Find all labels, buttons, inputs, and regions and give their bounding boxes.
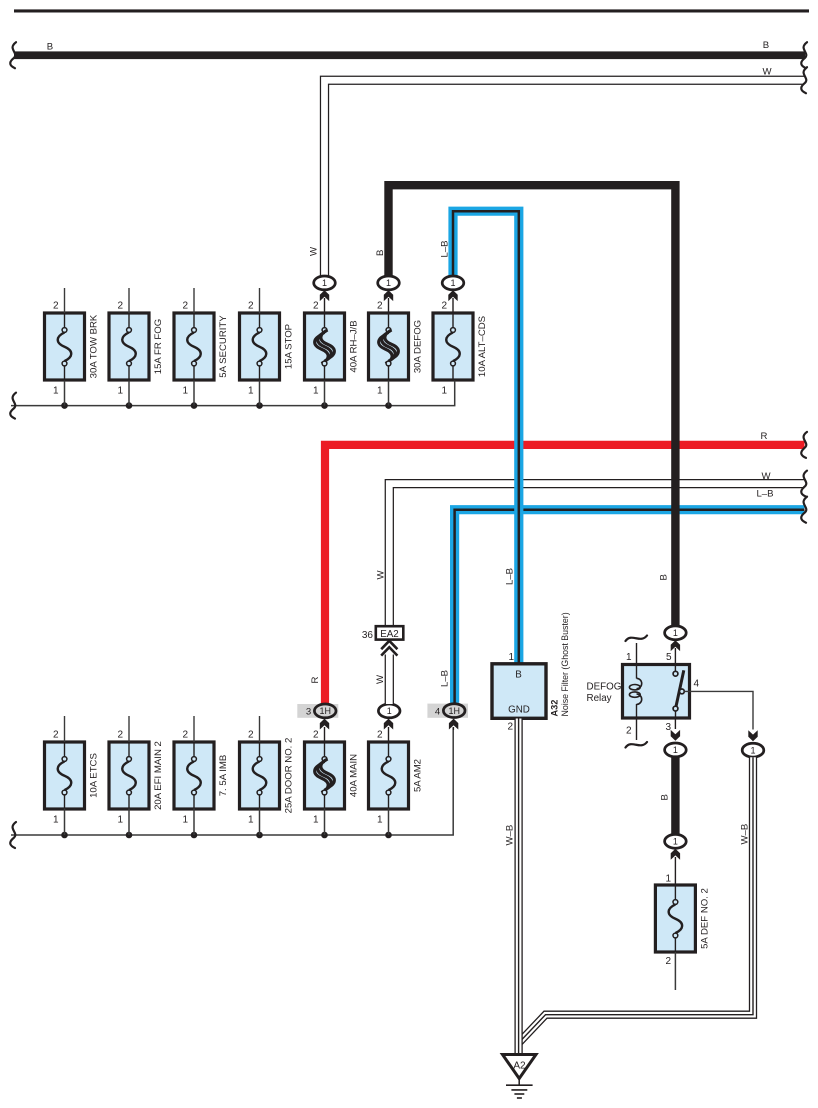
- pin 3 wire: [674, 718, 676, 729]
- svg-text:2: 2: [182, 301, 188, 312]
- label DEFOG Relay: [587, 682, 622, 705]
- wire W from EA2 chevron to connector oval: [385, 654, 394, 705]
- svg-text:1: 1: [387, 706, 392, 716]
- pin 1 wire bottom fuse col3: [193, 809, 195, 836]
- terminal arrow above fuse 30A DEFOG: [384, 290, 393, 313]
- svg-text:1: 1: [322, 278, 327, 288]
- svg-text:20A EFI MAIN 2: 20A EFI MAIN 2: [153, 741, 164, 810]
- terminal arrow above fuse 40A RH–J/B: [320, 290, 329, 313]
- svg-text:1: 1: [53, 386, 59, 397]
- connector oval 1 above fuse 30A DEFOG: [378, 276, 400, 290]
- svg-text:A2: A2: [513, 1061, 526, 1072]
- junction dot top bus col5: [321, 402, 328, 409]
- wire W (white) from right edge to EA2 connector: [389, 484, 804, 626]
- pin 2 label fuse 40A MAIN: [313, 730, 319, 741]
- connector oval 1 above fuse 10A ALT–CDS: [442, 276, 464, 290]
- svg-text:1: 1: [313, 815, 319, 826]
- pin 1 label fuse 30A DEFOG: [377, 386, 383, 397]
- pin 2 stub wire fuse 15A FR FOG: [128, 288, 130, 313]
- svg-text:W: W: [309, 246, 320, 256]
- svg-text:B: B: [660, 794, 671, 800]
- break symbol right of L-B wire: [801, 497, 807, 523]
- pin 1 label fuse 5A SECURITY: [182, 386, 188, 397]
- label W vertical col5: [309, 246, 320, 256]
- svg-text:40A RH–J/B: 40A RH–J/B: [349, 320, 360, 372]
- svg-text:Noise Filter (Ghost Buster): Noise Filter (Ghost Buster): [560, 612, 570, 716]
- label W vertical above EA2: [376, 570, 387, 580]
- pin 2 stub wire fuse 20A EFI MAIN 2: [128, 716, 130, 742]
- svg-text:1: 1: [313, 386, 319, 397]
- svg-text:1: 1: [53, 815, 59, 826]
- label L-B vertical col7: [440, 240, 451, 257]
- label B vertical below relay: [660, 794, 671, 800]
- svg-text:B: B: [375, 250, 386, 256]
- svg-text:B: B: [659, 574, 670, 580]
- svg-text:30A TOW BRK: 30A TOW BRK: [89, 314, 100, 378]
- wire W (white) from right edge down to fuse col5: [325, 80, 805, 277]
- svg-text:2: 2: [117, 730, 123, 741]
- pin 1 label: [626, 652, 632, 663]
- pin 5 wire: [674, 648, 676, 665]
- connector oval 1 above relay pin 5: [665, 626, 687, 640]
- pin 1 label fuse 7. 5A IMB: [182, 815, 188, 826]
- pin 1 wire bottom fuse col4: [259, 809, 261, 836]
- label R right: [761, 431, 768, 442]
- pin 2 label fuse 10A ETCS: [53, 730, 59, 741]
- pin 2 label noise filter: [507, 722, 513, 733]
- svg-text:7. 5A IMB: 7. 5A IMB: [218, 755, 229, 797]
- svg-text:1: 1: [182, 815, 188, 826]
- label W right top: [762, 67, 772, 78]
- pin 1 label fuse 5A AM2: [377, 815, 383, 826]
- wire W-B from relay pin4 oval to ground run: [519, 757, 753, 1043]
- svg-text:1: 1: [673, 837, 678, 847]
- svg-text:1: 1: [626, 652, 632, 663]
- fuse 30A DEFOG: [369, 313, 424, 380]
- connector oval 1 above 5A AM2: [378, 704, 400, 718]
- noise filter A32 box: [492, 664, 546, 719]
- terminal arrow below 1H pin3: [320, 719, 329, 742]
- label L-B right: [756, 489, 773, 500]
- connector oval 1 below relay pin 3: [665, 743, 687, 757]
- wire R (red) from right edge to 1H pin 3: [325, 445, 805, 704]
- pin 4 label: [694, 679, 700, 690]
- fuse 10A ETCS: [45, 742, 100, 809]
- fuse 20A EFI MAIN 2: [109, 741, 164, 810]
- svg-text:B: B: [47, 42, 53, 53]
- svg-text:A32: A32: [550, 700, 560, 717]
- svg-text:L–B: L–B: [756, 489, 773, 500]
- svg-text:3: 3: [665, 722, 671, 733]
- svg-text:EA2: EA2: [380, 629, 399, 640]
- svg-text:W: W: [762, 67, 772, 78]
- junction dot bottom bus col1: [61, 832, 68, 839]
- pin 2 label fuse 30A DEFOG: [377, 301, 383, 312]
- label L-B vertical near 1H pin4: [440, 670, 451, 687]
- svg-text:15A FR FOG: 15A FR FOG: [153, 319, 164, 374]
- pin 2 label fuse 40A RH–J/B: [313, 301, 319, 312]
- svg-text:5A AM2: 5A AM2: [413, 759, 424, 792]
- pin 1 label fuse 40A MAIN: [313, 815, 319, 826]
- svg-text:1: 1: [248, 815, 254, 826]
- junction dot top bus col3: [191, 402, 198, 409]
- svg-text:1: 1: [673, 745, 678, 755]
- svg-text:1: 1: [377, 386, 383, 397]
- svg-text:1: 1: [450, 278, 455, 288]
- terminal arrow below 1H pin4: [449, 719, 458, 730]
- svg-text:1: 1: [673, 628, 678, 638]
- svg-text:W: W: [376, 570, 387, 580]
- pin 1 wire bottom fuse col2: [128, 809, 130, 836]
- wire L-B from 10A ALT-CDS up over to Noise Filter pin 1: [453, 211, 519, 664]
- svg-text:2: 2: [441, 301, 447, 312]
- wire bus under bottom fuse row: [11, 728, 453, 836]
- svg-text:Relay: Relay: [587, 693, 612, 704]
- svg-text:GND: GND: [508, 705, 530, 716]
- junction dot bottom bus col6: [385, 832, 392, 839]
- wire W-B from noise filter GND to ground A2: [514, 719, 522, 1055]
- svg-text:10A ETCS: 10A ETCS: [89, 753, 100, 798]
- label W vertical EA2: [375, 674, 386, 684]
- break symbol right of W mid wire: [801, 471, 807, 497]
- junction dot bottom bus col3: [191, 832, 198, 839]
- label B vertical col6: [375, 250, 386, 256]
- pin 1 wire fuse col4: [259, 381, 261, 406]
- pin 2 wire DEF fuse: [674, 952, 676, 990]
- svg-text:2: 2: [626, 726, 632, 737]
- label Noise Filter (Ghost Buster): [560, 612, 570, 716]
- fuse 40A MAIN: [305, 742, 360, 809]
- svg-text:36: 36: [362, 630, 374, 641]
- svg-text:1: 1: [441, 386, 447, 397]
- pin 2 label fuse 10A ALT–CDS: [441, 301, 447, 312]
- junction dot bottom bus col2: [126, 832, 133, 839]
- svg-text:25A DOOR NO. 2: 25A DOOR NO. 2: [284, 738, 295, 814]
- pin 2 label DEF fuse: [665, 956, 671, 967]
- break symbol right of R wire: [801, 432, 807, 458]
- wire bus under top fuse row: [11, 381, 455, 406]
- pin 1 wire bottom fuse col1: [64, 809, 66, 836]
- pin 1 label DEF fuse: [665, 874, 671, 885]
- fuse 5A AM2: [369, 742, 424, 809]
- pin 1 label fuse 30A TOW BRK: [53, 386, 59, 397]
- pin 2 stub wire fuse 5A SECURITY: [193, 288, 195, 313]
- svg-text:40A MAIN: 40A MAIN: [349, 754, 360, 797]
- terminal arrow relay pin 3: [671, 730, 680, 741]
- pin 2 stub wire fuse 7. 5A IMB: [193, 716, 195, 742]
- break symbol left of bottom row bus: [10, 822, 16, 848]
- break symbol left of B bus: [10, 42, 16, 68]
- pin 1 label fuse 20A EFI MAIN 2: [117, 815, 123, 826]
- junction dot bottom bus col4: [256, 832, 263, 839]
- svg-text:1: 1: [665, 874, 671, 885]
- svg-text:5A DEF NO. 2: 5A DEF NO. 2: [699, 888, 710, 949]
- svg-text:1: 1: [750, 745, 755, 755]
- svg-text:1H: 1H: [448, 706, 460, 716]
- svg-text:L–B: L–B: [440, 670, 451, 687]
- svg-text:1: 1: [248, 386, 254, 397]
- terminal arrow below oval above 5A AM2: [384, 719, 393, 742]
- label W-B right: [740, 824, 751, 845]
- svg-text:W: W: [375, 674, 386, 684]
- label A32: [550, 700, 560, 717]
- junction dot top bus col2: [126, 402, 133, 409]
- pin 2 wire with break: [626, 704, 648, 748]
- fuse 5A DEF NO. 2: [655, 885, 710, 952]
- svg-text:2: 2: [377, 730, 383, 741]
- pin 2 label fuse 15A FR FOG: [117, 301, 123, 312]
- fuse 15A FR FOG: [109, 313, 164, 380]
- pin 1 wire fuse col1: [64, 381, 66, 406]
- svg-text:B: B: [515, 670, 522, 681]
- pin 1 label fuse 10A ETCS: [53, 815, 59, 826]
- wire B bus (battery feed) top: [14, 51, 805, 59]
- wire B (black) from 30A DEFOG over to DEFOG relay pin 5: [389, 185, 676, 628]
- svg-text:1H: 1H: [319, 706, 331, 716]
- svg-text:W: W: [761, 471, 771, 482]
- terminal arrow relay pin 5: [671, 640, 680, 651]
- svg-text:1: 1: [377, 815, 383, 826]
- pin 1 label fuse 40A RH–J/B: [313, 386, 319, 397]
- svg-text:2: 2: [182, 730, 188, 741]
- pin 1 wire fuse col3: [193, 381, 195, 406]
- pin 2 stub wire fuse 25A DOOR NO. 2: [259, 716, 261, 742]
- pin 2 stub wire fuse 15A STOP: [259, 288, 261, 313]
- top border line: [14, 9, 809, 12]
- connector oval 1 above fuse 40A RH–J/B: [314, 276, 336, 290]
- break symbol right of B bus: [801, 42, 807, 68]
- pin 1 wire fuse col6: [388, 381, 390, 406]
- label B right: [763, 40, 769, 51]
- pin 2 label fuse 20A EFI MAIN 2: [117, 730, 123, 741]
- pin 2 label fuse 15A STOP: [248, 301, 254, 312]
- pin 2 label fuse 30A TOW BRK: [53, 301, 59, 312]
- fuse 40A RH–J/B: [305, 313, 360, 380]
- svg-text:4: 4: [435, 707, 441, 718]
- svg-text:W–B: W–B: [740, 824, 751, 845]
- svg-text:1: 1: [508, 652, 514, 663]
- connector 1H pin 4 (from L-B wire): [427, 704, 468, 718]
- label B left: [47, 42, 53, 53]
- wire L-B (blue-black) from right edge to 1H pin 4: [455, 510, 805, 703]
- fuse 25A DOOR NO. 2: [240, 738, 295, 814]
- pin 1 wire fuse col5: [324, 381, 326, 406]
- label L-B vertical above noise filter: [505, 568, 516, 585]
- svg-text:4: 4: [694, 679, 700, 690]
- ground symbol: [506, 1079, 533, 1099]
- svg-text:2: 2: [53, 730, 59, 741]
- svg-text:30A DEFOG: 30A DEFOG: [413, 320, 424, 373]
- pin 1 label fuse 15A FR FOG: [117, 386, 123, 397]
- label W-B left: [505, 825, 516, 846]
- terminal arrow below oval: [671, 849, 680, 885]
- svg-text:1: 1: [182, 386, 188, 397]
- svg-text:W–B: W–B: [505, 825, 516, 846]
- svg-text:5A SECURITY: 5A SECURITY: [218, 315, 229, 378]
- pin 1 label fuse 15A STOP: [248, 386, 254, 397]
- label W right mid: [761, 471, 771, 482]
- break symbol right of W wire: [801, 67, 807, 93]
- junction dot bottom bus col5: [321, 832, 328, 839]
- svg-text:1: 1: [386, 278, 391, 288]
- svg-text:R: R: [761, 431, 768, 442]
- pin 2 stub wire fuse 10A ETCS: [64, 716, 66, 742]
- pin 1 label fuse 10A ALT–CDS: [441, 386, 447, 397]
- connector oval 1 above 5A DEF NO.2: [665, 834, 687, 848]
- connector EA2 pin 36: [362, 626, 403, 641]
- svg-text:1: 1: [117, 386, 123, 397]
- svg-text:DEFOG: DEFOG: [587, 682, 622, 693]
- pin 2 stub wire fuse 30A TOW BRK: [64, 288, 66, 313]
- svg-text:L–B: L–B: [440, 240, 451, 257]
- svg-text:2: 2: [53, 301, 59, 312]
- pin 2 label: [626, 726, 632, 737]
- relay box U1: [623, 665, 690, 719]
- pin 5 label: [666, 652, 672, 663]
- svg-text:5: 5: [666, 652, 672, 663]
- connector oval 1 below pin 4 drop: [742, 743, 764, 757]
- pin 1 wire bottom fuse col5: [324, 809, 326, 836]
- svg-text:3: 3: [306, 707, 311, 718]
- svg-text:1: 1: [117, 815, 123, 826]
- fuse 30A TOW BRK: [45, 313, 100, 380]
- junction dot top bus col1: [61, 402, 68, 409]
- label R vertical: [310, 677, 321, 684]
- label B vertical above relay: [659, 574, 670, 580]
- svg-text:2: 2: [117, 301, 123, 312]
- pin 1 wire fuse col2: [128, 381, 130, 406]
- fuse 5A SECURITY: [174, 313, 229, 380]
- break symbol left of top row bus: [10, 393, 16, 419]
- svg-text:2: 2: [248, 730, 254, 741]
- svg-text:L–B: L–B: [505, 568, 516, 585]
- connector 1H pin 3 (from R wire): [297, 704, 338, 718]
- wire B from relay pin 3 to 5A DEF NO.2: [671, 757, 679, 835]
- pin 4 wire to W-B drop: [684, 691, 753, 729]
- ground A2 triangle: [503, 1055, 537, 1079]
- svg-text:15A STOP: 15A STOP: [284, 324, 295, 369]
- pin 1 label noise filter: [508, 652, 514, 663]
- terminal arrow pin 4 drop: [748, 730, 757, 741]
- pin 3 label: [665, 722, 671, 733]
- svg-text:2: 2: [665, 956, 671, 967]
- relay coil: [629, 678, 641, 704]
- fuse 15A STOP: [240, 313, 295, 380]
- relay switch contact: [673, 665, 684, 719]
- svg-text:2: 2: [248, 301, 254, 312]
- shield chevron below EA2: [381, 641, 397, 656]
- svg-text:R: R: [310, 677, 321, 684]
- junction dot top bus col4: [256, 402, 263, 409]
- pin 2 label fuse 7. 5A IMB: [182, 730, 188, 741]
- fuse 10A ALT–CDS: [433, 313, 488, 380]
- svg-text:2: 2: [507, 722, 513, 733]
- fuse 7. 5A IMB: [174, 742, 229, 809]
- pin 1 wire bottom fuse col6: [388, 809, 390, 836]
- svg-text:10A ALT–CDS: 10A ALT–CDS: [477, 316, 488, 377]
- pin 1 label fuse 25A DOOR NO. 2: [248, 815, 254, 826]
- pin 1 wire with break: [626, 636, 648, 679]
- svg-text:2: 2: [377, 301, 383, 312]
- pin 2 label fuse 25A DOOR NO. 2: [248, 730, 254, 741]
- junction dot top bus col6: [385, 402, 392, 409]
- svg-text:B: B: [763, 40, 769, 51]
- svg-text:2: 2: [313, 730, 319, 741]
- terminal arrow above fuse 10A ALT–CDS: [448, 290, 457, 313]
- pin 2 label fuse 5A AM2: [377, 730, 383, 741]
- svg-text:2: 2: [313, 301, 319, 312]
- pin 2 label fuse 5A SECURITY: [182, 301, 188, 312]
